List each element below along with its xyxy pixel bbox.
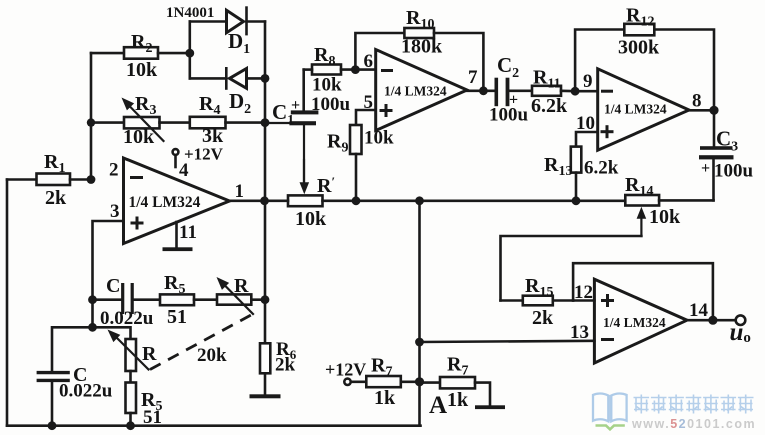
svg-text:6: 6 bbox=[364, 51, 374, 72]
svg-text:10k: 10k bbox=[364, 128, 394, 149]
svg-text:13: 13 bbox=[570, 322, 589, 343]
capacitor C1 100u electrolytic bbox=[265, 70, 351, 186]
potentiometer R14 bbox=[625, 174, 714, 236]
svg-text:1N4001: 1N4001 bbox=[166, 5, 214, 21]
svg-text:R14: R14 bbox=[625, 174, 653, 199]
resistor R12 feedback bbox=[575, 5, 714, 111]
svg-text:100u: 100u bbox=[489, 105, 529, 126]
svg-text:R13: R13 bbox=[544, 154, 572, 179]
junction R2/diodes bbox=[185, 49, 194, 58]
op-amp U1D LM324 bbox=[594, 279, 687, 363]
wire pin7 out bbox=[467, 90, 495, 93]
svg-text:0.022u: 0.022u bbox=[59, 381, 113, 402]
resistor R13 bbox=[544, 147, 619, 201]
junction R9 bottom bbox=[352, 196, 361, 205]
svg-text:C2: C2 bbox=[497, 53, 519, 81]
diode D2 bbox=[190, 68, 265, 117]
junction C vertical / bottom bus bbox=[48, 421, 57, 430]
resistor R4 bbox=[190, 93, 265, 147]
svg-text:R11: R11 bbox=[533, 67, 561, 92]
svg-text:1/4 LM324: 1/4 LM324 bbox=[603, 315, 666, 330]
svg-text:C: C bbox=[106, 275, 120, 297]
svg-text:www.520101.com: www.520101.com bbox=[631, 417, 756, 431]
junction R1/pin2 bbox=[87, 175, 96, 184]
svg-text:R1: R1 bbox=[44, 151, 65, 176]
svg-text:9: 9 bbox=[583, 71, 593, 92]
wire left vertical bus bbox=[6, 180, 9, 426]
ground pin11 U1A bbox=[163, 222, 197, 251]
resistor R6 bbox=[260, 339, 297, 395]
svg-text:14: 14 bbox=[689, 300, 709, 321]
junction pin1 bbox=[260, 196, 269, 205]
svg-text:R7: R7 bbox=[371, 355, 392, 380]
svg-text:uo: uo bbox=[730, 319, 751, 346]
power +12V node A bbox=[325, 360, 366, 385]
wire vertical x419 bbox=[418, 201, 421, 426]
potentiometer R' bbox=[288, 160, 335, 230]
svg-text:2k: 2k bbox=[275, 355, 296, 376]
junction pin3/C bbox=[88, 295, 97, 304]
node A bbox=[415, 377, 424, 386]
output terminal uo bbox=[730, 315, 751, 346]
svg-text:51: 51 bbox=[143, 407, 162, 428]
wire pin10 bbox=[576, 132, 598, 147]
svg-text:180k: 180k bbox=[401, 36, 443, 58]
wire diode branch vertical left bbox=[189, 22, 192, 79]
svg-text:R15: R15 bbox=[525, 275, 553, 300]
svg-text:R: R bbox=[234, 275, 249, 297]
svg-text:2k: 2k bbox=[532, 307, 554, 329]
wire main signal line bbox=[265, 200, 288, 203]
junction lower tee x92 bbox=[88, 323, 97, 332]
svg-text:11: 11 bbox=[179, 222, 197, 243]
wire lower branch right bbox=[93, 327, 131, 339]
svg-text:R10: R10 bbox=[406, 7, 434, 32]
svg-text:4: 4 bbox=[179, 160, 189, 181]
svg-text:1k: 1k bbox=[374, 387, 396, 409]
junction pin14/feedback bbox=[708, 316, 717, 325]
svg-text:3: 3 bbox=[110, 201, 120, 222]
junction pin8/C3 bbox=[709, 106, 718, 115]
capacitor C horizontal 0.022u bbox=[93, 275, 161, 329]
op-amp U1B LM324 bbox=[376, 50, 467, 131]
svg-text:C3: C3 bbox=[716, 127, 738, 155]
svg-text:1: 1 bbox=[235, 181, 245, 202]
svg-text:10k: 10k bbox=[123, 126, 155, 148]
junction R5v / bottom bus bbox=[126, 421, 135, 430]
svg-text:10k: 10k bbox=[312, 75, 342, 96]
wire bottom bus bbox=[7, 424, 421, 427]
svg-text:51: 51 bbox=[167, 306, 187, 328]
resistor R7 right bbox=[420, 354, 491, 412]
junction R3 tee bbox=[87, 118, 95, 126]
svg-text:100u: 100u bbox=[714, 161, 754, 182]
resistor R10 feedback bbox=[355, 7, 483, 91]
svg-text:8: 8 bbox=[692, 91, 702, 112]
svg-text:R2: R2 bbox=[131, 31, 152, 56]
wire pin9 bbox=[575, 90, 598, 93]
svg-text:R5: R5 bbox=[164, 272, 185, 297]
resistor R variable vertical bbox=[104, 326, 157, 383]
svg-text:1k: 1k bbox=[447, 389, 469, 411]
wire pin1 out bbox=[230, 200, 266, 203]
op-amp U1A LM324 bbox=[124, 158, 230, 244]
junction R11/R12/pin9 bbox=[571, 87, 580, 96]
junction pin7/C2 bbox=[479, 86, 488, 95]
watermark group (not a circuit element) bbox=[593, 393, 756, 431]
svg-text:R′: R′ bbox=[317, 174, 335, 197]
svg-text:+: + bbox=[701, 160, 710, 177]
resistor R5 horizontal 51 bbox=[160, 272, 217, 328]
wire pin12 bbox=[573, 299, 594, 302]
svg-text:12: 12 bbox=[574, 282, 593, 303]
capacitor C vertical 0.022u bbox=[37, 364, 113, 426]
wire pin14 out bbox=[687, 319, 738, 322]
wire pin6 bbox=[355, 68, 375, 71]
junction R4/C1 bbox=[261, 118, 270, 127]
junction R/right bus bbox=[261, 295, 270, 304]
svg-text:+12V: +12V bbox=[184, 145, 224, 164]
svg-text:R9: R9 bbox=[327, 131, 348, 156]
junction main/x419 bbox=[415, 196, 424, 205]
resistor R3 variable bbox=[91, 93, 190, 148]
diode D1 bbox=[190, 8, 265, 57]
svg-text:20k: 20k bbox=[197, 345, 227, 366]
svg-text:0.022u: 0.022u bbox=[100, 308, 154, 329]
power +12V pin4 U1A bbox=[173, 145, 224, 182]
svg-text:6.2k: 6.2k bbox=[584, 158, 619, 179]
resistor R7 left bbox=[366, 355, 419, 410]
resistor R2 bbox=[91, 31, 190, 81]
wire pin8 out bbox=[689, 109, 714, 112]
svg-text:R12: R12 bbox=[626, 5, 654, 30]
ground R7 right bbox=[475, 405, 505, 409]
svg-text:D2: D2 bbox=[229, 89, 251, 117]
svg-text:2: 2 bbox=[109, 160, 119, 181]
junction D2 right bbox=[261, 74, 270, 83]
wire pin5 bbox=[356, 110, 376, 125]
dashed gang line 20k bbox=[150, 315, 252, 370]
resistor R11 bbox=[531, 67, 575, 118]
wire vertical node R1-R2-R3 bbox=[90, 53, 93, 179]
svg-text:300k: 300k bbox=[618, 37, 660, 59]
svg-text:10k: 10k bbox=[649, 206, 681, 228]
junction pin13 branch bbox=[415, 338, 424, 347]
svg-text:R4: R4 bbox=[199, 93, 220, 118]
wire R14 wiper to R15 bbox=[501, 236, 642, 301]
svg-text:100u: 100u bbox=[311, 94, 351, 115]
svg-text:1/4 LM324: 1/4 LM324 bbox=[384, 84, 447, 99]
ground R6 bbox=[250, 394, 281, 398]
resistor R5 vertical 51 bbox=[126, 383, 163, 429]
resistor R15 bbox=[501, 275, 574, 329]
junction R13/main bbox=[572, 196, 581, 205]
svg-text:10k: 10k bbox=[295, 208, 327, 230]
svg-text:A: A bbox=[429, 392, 447, 419]
svg-text:+12V: +12V bbox=[325, 360, 366, 380]
svg-text:1/4 LM324: 1/4 LM324 bbox=[604, 102, 667, 117]
svg-text:6.2k: 6.2k bbox=[531, 95, 568, 117]
wire pin3 bbox=[93, 221, 124, 327]
svg-text:R3: R3 bbox=[135, 93, 156, 118]
op-amp U1C LM324 bbox=[598, 69, 689, 150]
resistor R variable horizontal bbox=[213, 274, 265, 314]
svg-text:2k: 2k bbox=[45, 187, 67, 209]
capacitor C3 100u electrolytic bbox=[699, 110, 754, 200]
resistor R1 bbox=[7, 151, 91, 209]
svg-text:7: 7 bbox=[468, 67, 478, 88]
junction R8/R10/pin6 bbox=[351, 65, 360, 74]
wire right vertical bus x265 bbox=[264, 22, 267, 344]
svg-text:R8: R8 bbox=[314, 44, 335, 69]
svg-text:1/4 LM324: 1/4 LM324 bbox=[129, 194, 201, 211]
resistor R9 bbox=[327, 125, 394, 201]
svg-text:10k: 10k bbox=[126, 59, 158, 81]
svg-text:R: R bbox=[142, 343, 157, 365]
wire pin13 run bbox=[420, 341, 595, 342]
svg-text:R7: R7 bbox=[447, 354, 468, 379]
resistor R8 bbox=[304, 44, 356, 96]
wire op4 feedback bbox=[573, 263, 713, 320]
svg-text:+: + bbox=[291, 97, 300, 114]
wire lower branch left bbox=[52, 327, 93, 372]
capacitor C2 100u electrolytic bbox=[489, 53, 532, 126]
